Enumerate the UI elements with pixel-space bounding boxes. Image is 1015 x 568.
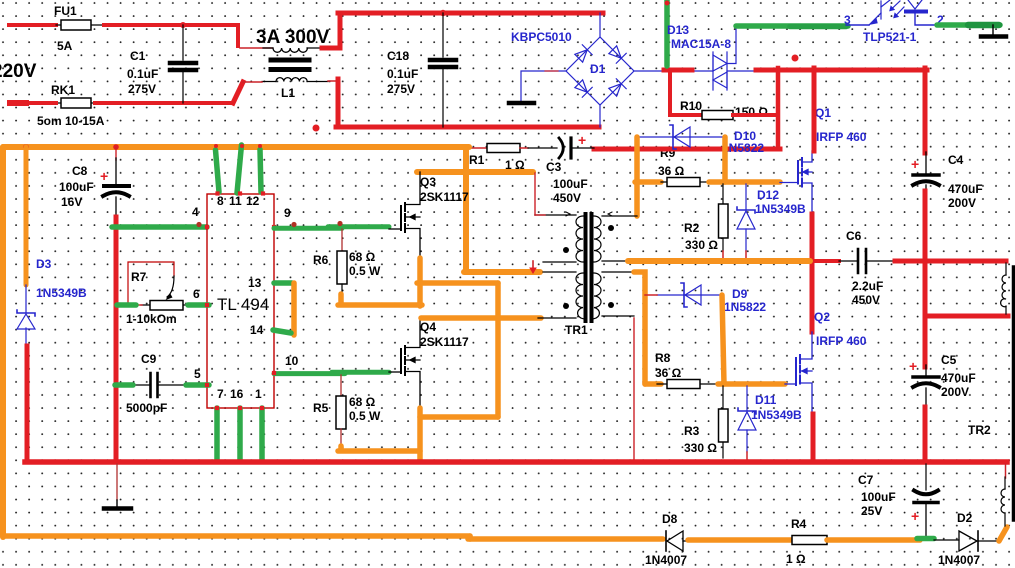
stray node dot: [792, 55, 799, 62]
svg-text:450V: 450V: [852, 293, 880, 307]
svg-text:200V: 200V: [941, 385, 969, 399]
optocoupler U2 TLP521-1: [846, 0, 937, 25]
svg-text:TR2: TR2: [968, 423, 991, 437]
wire orange Q2 gate net: [718, 381, 785, 387]
TR1 secondary upper winding: [594, 216, 601, 262]
capacitor C1: [170, 25, 196, 103]
wire green pin10 to Q4 gate: [274, 371, 345, 376]
ground (opto): [992, 25, 994, 34]
wire green C7 node: [917, 536, 934, 542]
svg-text:Q2: Q2: [814, 310, 830, 324]
svg-text:68 Ω: 68 Ω: [349, 250, 376, 264]
svg-text:470uF: 470uF: [948, 182, 983, 196]
wire FU1 to corner: [104, 25, 238, 46]
wire green R7 left: [117, 302, 136, 308]
resistor R10: [702, 111, 733, 120]
svg-text:330 Ω: 330 Ω: [685, 238, 718, 252]
TR1 core: [586, 214, 592, 321]
node C18 top: [440, 10, 446, 16]
svg-text:16V: 16V: [61, 195, 82, 209]
thermistor RK1: [56, 98, 95, 108]
TR1 phase dots: [563, 247, 569, 253]
zener D12: [737, 184, 755, 251]
wire orange D8 to R4: [688, 537, 793, 543]
svg-text:+: +: [911, 508, 919, 524]
wire green pin13: [274, 280, 292, 286]
wire TR1 primary bottom terminal: [538, 317, 576, 319]
potentiometer R7 body: [133, 301, 188, 311]
wire green pin9 to Q3 gate: [274, 226, 342, 231]
svg-text:1N5349B: 1N5349B: [755, 202, 806, 216]
ground bus: [25, 459, 1007, 465]
svg-text:1-10kOm: 1-10kOm: [126, 312, 177, 326]
wire Q1 source to half-bridge node: [810, 214, 815, 332]
wire orange Q4 source down: [417, 408, 423, 461]
wire orange output negative rail: [5, 533, 470, 539]
wire TR1 primary top terminal: [535, 214, 576, 216]
svg-text:36 Ω: 36 Ω: [655, 366, 682, 380]
transformer TR1: [576, 216, 601, 319]
wire L1 bottom right to bottom bus: [328, 80, 338, 82]
transformer TR2 upper winding: [1001, 263, 1006, 314]
wire corner to L1 top: [240, 47, 272, 49]
wire orange D2 to TR2 winding: [999, 527, 1007, 541]
svg-text:+: +: [911, 156, 919, 172]
wire L1 top right to top bus: [322, 46, 340, 51]
wire green R7 right to pin6: [188, 302, 209, 308]
wire HV+ down to C4: [923, 68, 928, 153]
wire green pin12 stub: [260, 150, 261, 193]
svg-text:275V: 275V: [387, 82, 415, 96]
svg-text:4: 4: [192, 205, 199, 219]
svg-text:C1: C1: [130, 49, 146, 63]
wire green C9 left: [115, 382, 133, 388]
svg-text:1N4007: 1N4007: [645, 553, 687, 567]
svg-text:470uF: 470uF: [941, 371, 976, 385]
resistor R3: [719, 386, 729, 458]
capacitor C5: [913, 365, 939, 409]
wire orange R9 left stub: [635, 179, 661, 185]
wire green pin11 stub: [237, 145, 242, 193]
TR1 primary lower winding: [576, 273, 583, 319]
wire D12 bottom tick: [745, 251, 747, 259]
fuse FU1: [56, 20, 104, 30]
svg-text:2SK1117: 2SK1117: [420, 190, 469, 204]
wire red drop to TR1 primary top: [534, 173, 536, 215]
IC U1 TL494 body: [207, 194, 274, 408]
svg-text:D13: D13: [667, 23, 689, 37]
svg-text:8: 8: [217, 194, 224, 208]
wire R10 left branch: [670, 70, 702, 115]
svg-text:KBPC5010: KBPC5010: [511, 30, 572, 44]
wire green pin16 ground stub: [237, 408, 243, 461]
svg-text:R4: R4: [791, 517, 807, 531]
svg-text:FU1: FU1: [54, 4, 77, 18]
wire orange pin13-pin14 link: [291, 283, 297, 335]
svg-text:+: +: [578, 132, 586, 148]
svg-text:R3: R3: [684, 424, 700, 438]
svg-text:0.1uF: 0.1uF: [387, 67, 418, 81]
pin pad 9: [272, 225, 276, 229]
svg-text:TR1: TR1: [565, 323, 588, 337]
wire orange R8 left stub: [645, 381, 661, 387]
wire orange D3 branch: [24, 147, 29, 285]
svg-text:5000pF: 5000pF: [126, 401, 167, 415]
node top of green: [665, 1, 670, 6]
pin pad 10: [272, 371, 276, 375]
wire green C9 right to pin5: [186, 382, 209, 388]
svg-text:R6: R6: [313, 253, 329, 267]
wire TR2 lower winding feed: [1005, 464, 1007, 478]
TR1 primary upper winding: [576, 216, 583, 262]
bridge rectifier D1: [566, 13, 634, 127]
svg-text:2SK1117: 2SK1117: [420, 335, 469, 349]
wire green triac gate to opto: [736, 23, 848, 29]
svg-text:5: 5: [194, 367, 201, 381]
zener D3: [17, 285, 35, 348]
svg-text:+: +: [909, 358, 917, 374]
wire green pin8 stub: [216, 150, 220, 192]
wire orange TR1 center tap: [464, 269, 540, 275]
capacitor C18: [430, 13, 456, 127]
svg-text:+: +: [100, 168, 108, 184]
diode D9: [657, 283, 721, 307]
svg-text:36 Ω: 36 Ω: [658, 164, 685, 178]
wire N phase from mains: [10, 101, 56, 105]
capacitor C7: [914, 491, 938, 538]
wire L phase from mains: [9, 23, 56, 27]
svg-text:D8: D8: [662, 512, 678, 526]
wire C5 bottom to ground bus: [923, 407, 928, 462]
svg-text:Q1: Q1: [815, 106, 831, 120]
wire bridge DC out right: [634, 70, 713, 72]
bottom AC bus to bridge: [336, 125, 599, 130]
wire green pin4 deadtime: [112, 224, 207, 230]
svg-text:0.5 W: 0.5 W: [349, 264, 381, 278]
node pin9 wire: [291, 222, 296, 227]
svg-text:1N4007: 1N4007: [938, 553, 980, 567]
wire red center tap link: [532, 261, 534, 272]
wire green pin7 ground stub: [214, 408, 220, 461]
wire green pin1 ground stub: [259, 408, 265, 461]
ground (bridge left): [509, 101, 534, 106]
svg-text:7: 7: [217, 387, 224, 401]
svg-text:220V: 220V: [0, 61, 37, 82]
svg-text:L1: L1: [281, 86, 295, 100]
resistor R5: [336, 375, 346, 448]
svg-text:100uF: 100uF: [553, 177, 588, 191]
svg-text:C5: C5: [941, 353, 957, 367]
resistor R6: [337, 229, 347, 296]
wire C7 to D2: [934, 539, 959, 541]
svg-text:6: 6: [193, 287, 200, 301]
wire snubber bus: [594, 147, 780, 152]
TR1 secondary lower winding: [594, 273, 601, 319]
mosfet Q4: [389, 317, 420, 410]
wire TR1 center tap terminals: [543, 262, 576, 272]
pin pads 7 16 1: [215, 406, 264, 410]
resistor R1: [487, 144, 520, 153]
ground (control): [116, 500, 118, 507]
svg-text:MAC15A-8: MAC15A-8: [671, 37, 731, 51]
svg-text:D1: D1: [590, 62, 606, 76]
svg-text:5om 10-15A: 5om 10-15A: [37, 114, 105, 128]
wire RK1 to C1 and corner: [95, 101, 233, 105]
pin pad 6: [205, 303, 209, 307]
svg-text:200V: 200V: [948, 196, 976, 210]
capacitor C3: [559, 138, 594, 158]
svg-text:R2: R2: [684, 221, 700, 235]
wire C7 top feed: [925, 464, 927, 490]
wire orange Q4 drain to TR1: [421, 315, 541, 321]
svg-text:5A: 5A: [57, 39, 73, 53]
svg-text:R7: R7: [131, 270, 147, 284]
svg-text:11: 11: [229, 194, 242, 208]
svg-text:D2: D2: [957, 511, 973, 525]
wire TR2 mid return: [925, 314, 1008, 319]
svg-text:1N5822: 1N5822: [722, 141, 764, 155]
wire orange branch to Q3 drain and C3 feed: [417, 169, 533, 175]
wire red TR1 sec bottom to ground: [633, 318, 635, 462]
wire green opto emitter to ground: [937, 22, 1000, 28]
wire L1 bottom left: [243, 81, 262, 83]
svg-text:C4: C4: [948, 153, 964, 167]
wire orange R6 bottom link: [338, 294, 344, 304]
diode D2: [959, 531, 999, 551]
wire C8 feed: [115, 147, 117, 160]
triac D13: [713, 27, 757, 90]
svg-text:RK1: RK1: [51, 83, 75, 97]
mosfet Q3: [389, 172, 420, 258]
svg-text:R1: R1: [469, 153, 485, 167]
diode D1a top-left: [574, 45, 592, 63]
wire C6 to TR2 top: [895, 259, 1006, 264]
svg-text:D9: D9: [732, 287, 748, 301]
TR1 winding arrows: [566, 212, 570, 216]
capacitor C4: [913, 175, 939, 192]
svg-text:0.5 W: 0.5 W: [349, 409, 381, 423]
svg-text:D3: D3: [36, 257, 52, 271]
svg-text:Q4: Q4: [420, 320, 436, 334]
node pin4 wire: [196, 222, 201, 227]
svg-text:9: 9: [284, 206, 291, 220]
svg-text:R10: R10: [680, 99, 702, 113]
capacitor C9: [131, 373, 186, 397]
wire orange D10 anode drop: [722, 137, 728, 182]
wire red main VCC drop to ground bus: [114, 217, 119, 462]
wire orange R4 to C7 node: [827, 537, 920, 543]
wire D3 anode to ground bus: [25, 346, 30, 461]
svg-text:12: 12: [246, 194, 260, 208]
diode D10: [637, 125, 724, 149]
resistor R8: [657, 380, 718, 389]
wire R1 left: [469, 147, 487, 149]
capacitor C6: [839, 249, 895, 273]
wire orange half-bridge mid bus: [628, 258, 810, 264]
svg-text:C3: C3: [546, 160, 562, 174]
svg-text:C8: C8: [72, 164, 88, 178]
svg-text:450V: 450V: [553, 191, 581, 205]
zener D11: [738, 386, 756, 452]
svg-text:330 Ω: 330 Ω: [684, 441, 717, 455]
svg-text:3: 3: [844, 13, 851, 27]
svg-text:R5: R5: [313, 401, 329, 415]
wire Q2 source to ground bus: [811, 414, 816, 462]
transformer TR2 lower winding: [1001, 477, 1005, 526]
mosfet Q1: [780, 151, 812, 214]
resistor R2: [719, 184, 729, 251]
svg-text:Q3: Q3: [420, 175, 436, 189]
wire orange bus corner down to TR1 center tap: [463, 147, 469, 272]
svg-text:14: 14: [250, 323, 264, 337]
wire orange source tie branch: [417, 280, 498, 286]
wire TR1 sec bottom terminal: [602, 315, 634, 317]
node R6 tap: [337, 221, 342, 226]
svg-text:TLP521-1: TLP521-1: [863, 30, 917, 44]
wire D11 bottom tick: [746, 452, 748, 461]
diode D1b top-right: [608, 45, 626, 63]
wire green from PWM supply top: [664, 0, 670, 66]
wire orange Q1 gate net: [709, 179, 780, 185]
svg-text:1N5349B: 1N5349B: [36, 286, 87, 300]
wire orange TR1 to D9/R8: [634, 272, 645, 384]
wire R10 right branch: [733, 113, 778, 117]
svg-text:25V: 25V: [861, 504, 882, 518]
wire orange VCC bus: [3, 144, 469, 150]
svg-text:C18: C18: [387, 49, 409, 63]
stray node dot: [313, 125, 320, 132]
svg-text:0.1uF: 0.1uF: [127, 67, 158, 81]
wire R2 bottom tick: [722, 251, 724, 259]
resistor R4: [792, 536, 827, 545]
resistor R9: [661, 178, 709, 187]
wire orange TR1 sec top to R9/D10: [634, 137, 640, 216]
wire half-bridge mid node red: [808, 259, 839, 263]
svg-text:TL 494: TL 494: [217, 295, 269, 314]
inductor L1: [262, 48, 328, 82]
mosfet Q2: [785, 332, 812, 414]
svg-text:C6: C6: [846, 229, 862, 243]
wire Q1 drain from HV+: [812, 68, 817, 151]
diode D1c bottom-left: [574, 79, 592, 97]
wire C4 bottom to C5: [923, 191, 928, 367]
wire TR1 sec top terminal: [602, 215, 637, 217]
wire orange left rail down: [0, 147, 6, 537]
potentiometer R7 arrow: [167, 276, 174, 297]
wire bridge AC left to ground: [521, 71, 566, 101]
svg-text:1: 1: [255, 387, 262, 401]
node C8 tap: [113, 144, 119, 150]
wire red overlay at triac left node: [664, 68, 692, 73]
wire red D9 left tick: [645, 294, 657, 296]
potentiometer R7 frame: [128, 262, 174, 304]
svg-text:16: 16: [230, 387, 244, 401]
svg-text:IRFP 460: IRFP 460: [816, 334, 867, 348]
svg-text:10: 10: [285, 354, 299, 368]
svg-text:C7: C7: [858, 473, 874, 487]
svg-text:100uF: 100uF: [861, 490, 896, 504]
svg-text:1N5349B: 1N5349B: [751, 408, 802, 422]
wire orange Q3 source down: [417, 258, 423, 306]
svg-text:13: 13: [248, 276, 262, 290]
svg-text:1 Ω: 1 Ω: [786, 552, 806, 566]
wire HV+ to primary bus drop: [776, 68, 781, 149]
svg-text:D12: D12: [757, 188, 779, 202]
pin pads 8 11 12: [215, 191, 265, 195]
svg-text:1N5822: 1N5822: [724, 300, 766, 314]
diode D8: [666, 531, 690, 551]
wire main HV+ bus: [756, 68, 927, 73]
wire orange D9 anode drop to gate: [722, 295, 724, 384]
wire R1 to C3: [520, 147, 528, 149]
svg-text:IRFP 460: IRFP 460: [816, 130, 867, 144]
svg-text:R8: R8: [655, 351, 671, 365]
transformer TR2 core: [1012, 267, 1015, 520]
wire diagonal to L1 bottom: [233, 82, 243, 103]
svg-text:2.2uF: 2.2uF: [852, 279, 883, 293]
svg-text:100uF: 100uF: [59, 180, 94, 194]
svg-text:275V: 275V: [128, 82, 156, 96]
pin pad 5: [205, 383, 209, 387]
svg-text:D11: D11: [755, 393, 777, 407]
wire TL494 gnd drop: [116, 464, 118, 500]
pin pad 4: [205, 225, 209, 229]
svg-text:3A 300V: 3A 300V: [256, 27, 330, 48]
svg-text:68 Ω: 68 Ω: [349, 395, 376, 409]
node C1 top junction: [180, 22, 186, 28]
wire orange R5 bottom to Q4 source: [338, 446, 344, 450]
diode D1d bottom-right: [608, 79, 626, 97]
node D3 tap: [23, 144, 29, 150]
wire TR1 sec mid terminals: [602, 261, 634, 272]
wire green pin14: [273, 330, 291, 333]
top bus to bridge: [338, 11, 603, 16]
svg-text:C9: C9: [141, 352, 157, 366]
capacitor C8: [103, 186, 129, 217]
